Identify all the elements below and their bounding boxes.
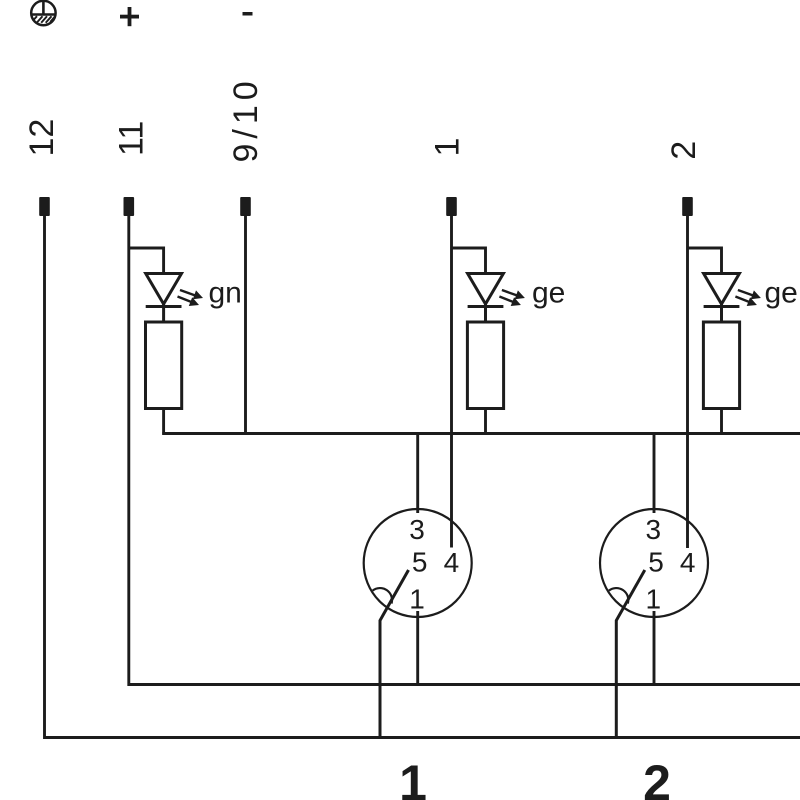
svg-text:ge: ge [765,277,798,310]
svg-text:1: 1 [399,755,427,800]
svg-text:11: 11 [113,121,151,156]
svg-text:ge: ge [532,277,565,310]
svg-text:2: 2 [665,141,703,160]
svg-text:2: 2 [643,755,671,800]
svg-text:gn: gn [209,277,242,310]
svg-text:1: 1 [429,138,467,157]
svg-text:9/10: 9/10 [227,76,265,162]
svg-text:12: 12 [23,119,61,157]
